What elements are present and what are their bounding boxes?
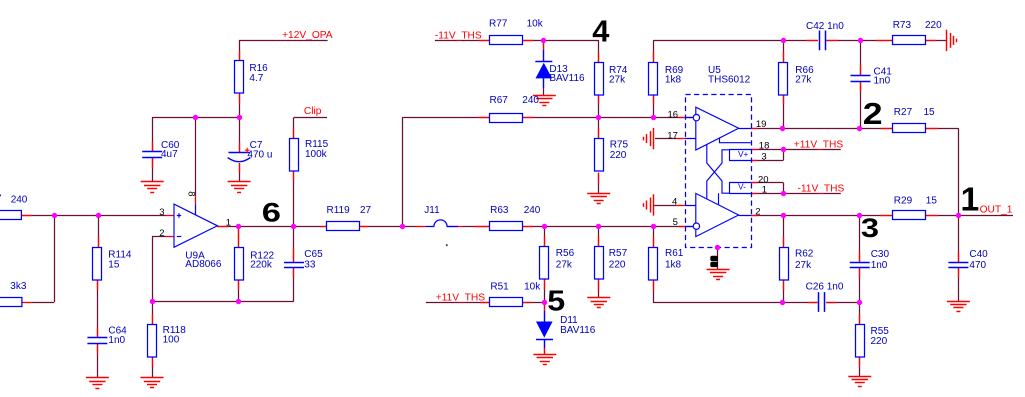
op-amp U9A power pin segment <box>195 204 197 214</box>
red stubs R55 <box>859 314 861 324</box>
svg-text:2: 2 <box>863 97 883 131</box>
svg-text:1k8: 1k8 <box>665 260 682 271</box>
ground under R57 <box>587 297 610 299</box>
svg-text:15: 15 <box>108 260 120 271</box>
annotation number 5 <box>547 285 565 317</box>
svg-text:27k: 27k <box>609 75 626 86</box>
diode D13 BAV116 <box>535 61 552 63</box>
resistor R51 <box>490 298 523 307</box>
wire R77 junction to R74 <box>544 40 599 42</box>
red stubs R74 <box>598 52 600 62</box>
wire R69 column <box>653 40 655 62</box>
resistor R74 <box>595 63 604 96</box>
svg-text:R119: R119 <box>327 205 351 216</box>
svg-text:3: 3 <box>861 214 879 244</box>
red stubs C30 <box>859 252 861 263</box>
red stubs C7 <box>239 143 241 153</box>
svg-text:1k8: 1k8 <box>665 75 682 86</box>
junction node M1 <box>715 245 720 250</box>
red stubs C60 <box>152 142 154 152</box>
wire pin20 to V- junction <box>751 182 783 184</box>
wire C64 to ground <box>97 343 99 378</box>
svg-text:220: 220 <box>610 150 627 161</box>
ferrite bead J11 <box>425 220 458 227</box>
svg-text:20: 20 <box>758 174 769 185</box>
svg-text:BAV116: BAV116 <box>560 325 596 336</box>
red stubs R62 <box>783 237 785 247</box>
red stubs R66 <box>783 52 785 62</box>
junction node E2 <box>542 224 547 229</box>
svg-text:C40: C40 <box>969 249 988 260</box>
ground rotated after R73 <box>946 30 948 51</box>
op-amp U9A plus mark <box>177 213 181 217</box>
capacitor C65 <box>284 262 304 264</box>
red stubs R51 <box>480 302 489 304</box>
svg-text:AD8066: AD8066 <box>185 259 222 270</box>
U5 pin5 blue lead <box>686 226 694 228</box>
svg-text:BAV116: BAV116 <box>549 73 585 84</box>
svg-text:R63: R63 <box>490 205 509 216</box>
svg-text:33: 33 <box>304 260 316 271</box>
red stub U9A output <box>217 226 228 228</box>
pin number thermal pad rotated U5 <box>710 256 718 261</box>
U5 pin16 blue lead <box>686 117 694 119</box>
svg-text:3: 3 <box>761 151 766 162</box>
wire D11 column <box>544 302 546 321</box>
svg-text:27k: 27k <box>556 260 573 271</box>
wire R55 column <box>859 302 861 325</box>
U5 bottom amp triangle <box>696 193 739 236</box>
junction node C2 <box>291 224 296 229</box>
op-amp U9A triangle <box>174 204 217 247</box>
red stub U5 pin17 <box>676 138 686 140</box>
junction node D2 <box>236 299 241 304</box>
svg-text:-11V_THS: -11V_THS <box>435 31 482 42</box>
wire main mid row y226 <box>294 226 416 228</box>
red stub U5 pin3 <box>751 160 757 162</box>
svg-text:100k: 100k <box>305 149 328 160</box>
annotation number 3 <box>861 214 879 244</box>
resistor R63 <box>490 222 523 231</box>
ground under C40 <box>947 301 970 303</box>
wire R115 column <box>293 118 295 140</box>
junction node A1 <box>52 213 57 218</box>
red stubs R69 <box>653 52 655 62</box>
svg-text:220: 220 <box>609 260 626 271</box>
annotation number 4 <box>592 14 609 49</box>
resistor R67 <box>490 114 523 123</box>
U5 output pin19 segment <box>739 128 752 130</box>
wire R62 column <box>783 215 785 247</box>
svg-text:Clip: Clip <box>304 106 322 117</box>
junction node J1 <box>781 147 786 152</box>
junction node E3 <box>596 224 601 229</box>
wire U9A output row <box>217 226 294 228</box>
svg-text:R75: R75 <box>610 140 629 151</box>
svg-text:220: 220 <box>871 336 888 347</box>
wire C41 column <box>860 40 862 75</box>
wire R61 column <box>653 226 655 248</box>
svg-text:3: 3 <box>159 207 164 218</box>
red stub U5 pin1 <box>751 193 757 195</box>
red stub U9A pin8 <box>195 196 197 204</box>
red stubs R57 <box>598 236 600 246</box>
ground under C60 <box>141 181 164 183</box>
ground under D11 <box>533 354 556 356</box>
junction node F1 <box>541 38 546 43</box>
wire pin17 stub wire <box>655 138 676 140</box>
resistor R62 <box>780 248 789 281</box>
wire pin18 +11V_THS <box>751 149 841 151</box>
wire R66 column <box>783 40 785 62</box>
red stubs R115 <box>293 129 295 139</box>
ground rotated at U5 pin17 <box>653 128 655 149</box>
svg-text:1: 1 <box>762 185 767 196</box>
resistor R66 <box>779 63 788 96</box>
wire feedback bottom rail <box>152 301 294 303</box>
junction node D1 <box>150 299 155 304</box>
svg-text:240: 240 <box>522 95 539 106</box>
red stub U9A pin2 <box>166 236 174 238</box>
wire C65 top lead <box>293 226 295 262</box>
wire top rail <box>653 40 818 42</box>
svg-text:6: 6 <box>262 197 281 227</box>
wire R57 column <box>598 226 600 247</box>
svg-text:V-: V- <box>738 182 746 192</box>
svg-text:220k: 220k <box>250 259 273 270</box>
wire +11V_THS to R51 row <box>426 302 489 304</box>
svg-text:10k: 10k <box>527 19 544 30</box>
svg-text:27: 27 <box>360 205 372 216</box>
red stubs R63 <box>474 226 489 228</box>
svg-text:1n0: 1n0 <box>874 75 891 86</box>
red stubs C26 <box>808 302 818 304</box>
resistor R55 <box>856 325 865 358</box>
wire pin1 -11V_THS <box>751 193 841 195</box>
resistor R122 <box>235 248 244 281</box>
svg-text:19: 19 <box>756 119 767 130</box>
svg-text:OUT_1: OUT_1 <box>980 204 1013 215</box>
svg-text:R57: R57 <box>609 248 628 259</box>
red stubs C42 <box>806 40 817 42</box>
red stubs R16 <box>239 51 241 61</box>
svg-text:R51: R51 <box>490 282 509 293</box>
red stub U5 pin2 <box>751 215 758 217</box>
wire R61 bottom corner to rail <box>653 280 655 302</box>
ground under D13 <box>533 95 556 97</box>
red stub U9A pin3 <box>166 215 174 217</box>
svg-text:10k: 10k <box>524 282 541 293</box>
svg-text:17: 17 <box>667 130 678 141</box>
wire U9A pin2 feedback down <box>152 236 166 238</box>
U5 internal power cross wiring <box>707 138 751 205</box>
wire R74 bottom <box>598 94 600 118</box>
svg-text:27k: 27k <box>795 260 812 271</box>
U5 top amp input bubble pin16 <box>693 114 699 120</box>
wire +12V_OPA net <box>239 40 328 42</box>
ground under U5 thermal pad <box>707 269 730 271</box>
svg-text:+11V_THS: +11V_THS <box>794 140 844 151</box>
wire C40 column <box>958 215 960 262</box>
svg-text:R27: R27 <box>894 107 913 118</box>
junction node I1 <box>780 126 785 131</box>
wire main input row y215 <box>21 215 166 217</box>
svg-text:R56: R56 <box>556 248 575 259</box>
annotation number 6 <box>262 197 281 227</box>
U5 bottom amp input bubble pin5 <box>693 223 699 229</box>
ground under C7 <box>228 181 251 183</box>
svg-text:C65: C65 <box>304 249 323 260</box>
svg-text:R61: R61 <box>665 248 684 259</box>
red stubs C41 <box>860 65 862 75</box>
svg-text:4: 4 <box>592 14 609 49</box>
ground under R118 <box>141 377 164 379</box>
svg-text:1n0: 1n0 <box>871 260 888 271</box>
red stubs R67 <box>478 117 489 119</box>
svg-text:4.7: 4.7 <box>249 73 263 84</box>
junction node H2 <box>858 38 863 43</box>
junction node H1 <box>781 38 786 43</box>
resistor R118 <box>148 325 157 358</box>
wire D13 column <box>543 40 545 61</box>
stray dot artifact near J11 <box>446 244 448 246</box>
resistor R29 <box>893 211 926 220</box>
svg-text:15: 15 <box>926 196 938 207</box>
svg-text:THS6012: THS6012 <box>708 75 751 86</box>
red stub U5 pin18 <box>751 149 757 151</box>
wire R67 row to pin16 <box>402 117 694 119</box>
svg-text:470 u: 470 u <box>247 149 272 160</box>
red stub 3k3 resistor <box>22 302 32 304</box>
wire U9A power pin 8 column <box>195 117 197 196</box>
red stubs R118 <box>152 314 154 324</box>
capacitor C41 <box>851 75 871 77</box>
wire vertical x402 to R67 row <box>402 118 404 226</box>
red stubs C40 <box>958 252 960 263</box>
wire Clip net <box>294 117 327 119</box>
red stubs R27 <box>881 128 893 130</box>
U5 pin17 blue lead <box>686 138 696 140</box>
U5 pin4 blue lead <box>686 205 696 207</box>
red stubs R75 <box>598 128 600 138</box>
wire R118 stubs <box>152 302 154 325</box>
resistor R75 <box>595 139 604 172</box>
svg-text:R73: R73 <box>893 20 912 31</box>
svg-text:C26 1n0: C26 1n0 <box>806 281 844 292</box>
resistor R56 <box>540 247 549 280</box>
svg-text:R29: R29 <box>894 196 913 207</box>
svg-text:2: 2 <box>159 228 164 239</box>
wire R51 to junction <box>522 302 544 304</box>
red stubs R61 <box>653 237 655 247</box>
svg-text:16: 16 <box>668 109 679 120</box>
resistor R57 <box>595 247 604 280</box>
svg-text:18: 18 <box>759 141 770 152</box>
red stub U5 pin19 <box>751 128 757 130</box>
svg-text:1n0: 1n0 <box>108 335 125 346</box>
junction node K3 <box>956 213 961 218</box>
junction node F2 <box>542 300 547 305</box>
wire branch to 3k3 resistor <box>54 215 56 302</box>
red stubs R77 <box>479 40 490 42</box>
svg-text:V+: V+ <box>738 149 749 159</box>
resistor R16 <box>235 61 244 94</box>
wire C7 column <box>239 117 241 152</box>
junction node E1 <box>400 224 405 229</box>
resistor R27 <box>893 124 926 133</box>
resistor partial 3k3 at left edge <box>0 298 22 307</box>
svg-text:C30: C30 <box>871 249 890 260</box>
svg-text:R62: R62 <box>795 248 814 259</box>
svg-text:1: 1 <box>961 182 980 219</box>
wire pin19 row to R27 corner <box>751 128 958 130</box>
resistor R77 <box>490 36 523 45</box>
svg-text:-11V_THS: -11V_THS <box>798 183 845 194</box>
U5 V+ pin lines 18 and 3 <box>729 149 751 151</box>
junction node B1 <box>193 115 198 120</box>
annotation number 1 <box>961 182 980 219</box>
red stubs J11 <box>416 226 426 228</box>
resistor R61 <box>649 248 658 281</box>
red stubs R73 <box>876 40 893 42</box>
capacitor C30 <box>850 262 870 264</box>
capacitor C40 <box>948 262 968 264</box>
resistor R69 <box>649 63 658 96</box>
U5 dashed body box <box>686 95 752 248</box>
wire R114 bottom to C64 <box>97 280 99 338</box>
svg-text:15: 15 <box>924 107 936 118</box>
junction node A2 <box>96 213 101 218</box>
svg-text:470: 470 <box>969 260 986 271</box>
resistor R73 <box>893 36 926 45</box>
ground under R75 <box>587 193 610 195</box>
capacitor C26 <box>818 292 820 312</box>
resistor R119 <box>327 222 360 231</box>
ground under R55 <box>848 376 871 378</box>
svg-text:100: 100 <box>163 335 180 346</box>
wire pin3 to V+ junction <box>751 160 783 162</box>
diode D11 BAV116 <box>536 322 553 338</box>
annotation number 2 <box>863 97 883 131</box>
svg-text:2: 2 <box>755 207 760 218</box>
wire C30 column <box>859 215 861 262</box>
svg-text:27k: 27k <box>795 75 812 86</box>
red stubs R29 <box>880 215 892 217</box>
red stub U5 pin16 <box>678 117 685 119</box>
svg-text:5: 5 <box>547 285 565 317</box>
resistor R114 <box>93 248 102 281</box>
red stubs R56 <box>544 236 546 246</box>
red stubs D11 <box>544 305 546 312</box>
svg-text:1: 1 <box>226 217 231 228</box>
junction node L1 <box>780 300 785 305</box>
red stubs R119 <box>320 226 326 228</box>
red stubs C65 <box>293 248 295 262</box>
junction node C1 <box>236 224 241 229</box>
svg-text:5: 5 <box>673 217 678 228</box>
junction node G1 <box>596 115 601 120</box>
svg-text:3k3: 3k3 <box>10 281 27 292</box>
junction node K1 <box>781 213 786 218</box>
junction node L2 <box>857 300 862 305</box>
capacitor C60 <box>142 151 162 153</box>
junction node E4 <box>651 224 656 229</box>
svg-text:+11V_THS: +11V_THS <box>436 293 486 304</box>
capacitor C7 electrolytic <box>229 152 250 154</box>
svg-text:8: 8 <box>186 191 197 196</box>
ground under C64 <box>86 377 109 379</box>
red stub U5 pin20 <box>751 182 757 184</box>
wire U5 thermal pad to ground <box>717 248 719 270</box>
svg-text:4: 4 <box>672 197 677 208</box>
capacitor C64 <box>87 337 107 339</box>
resistor R115 <box>290 139 299 172</box>
wire C60 column <box>152 117 154 152</box>
wire -11V_THS to R77 row <box>435 40 544 42</box>
svg-text:220: 220 <box>925 20 942 31</box>
wire R16 column <box>239 40 241 61</box>
svg-text:R77: R77 <box>489 19 508 30</box>
red stubs R122 <box>238 228 240 248</box>
op-amp U9A minus mark <box>177 236 181 238</box>
svg-text:J11: J11 <box>424 205 440 216</box>
wire pin4 stub wire <box>654 205 676 207</box>
svg-text:C42 1n0: C42 1n0 <box>806 21 844 32</box>
U5 output pin2 segment <box>739 215 752 217</box>
svg-text:4u7: 4u7 <box>161 149 178 160</box>
red stubs R114 <box>98 237 100 247</box>
red stub U5 pin4 <box>676 205 686 207</box>
junction node K2 <box>857 213 862 218</box>
capacitor C42 <box>819 31 821 51</box>
wire top-left rail <box>152 117 239 119</box>
wire R122 vertical <box>238 226 240 247</box>
red stub left 240 resistor <box>21 215 32 217</box>
svg-text:240: 240 <box>524 205 541 216</box>
resistor partial 240 at left edge <box>0 211 21 220</box>
junction node I2 <box>857 126 862 131</box>
svg-text:+12V_OPA: +12V_OPA <box>282 30 333 41</box>
wire R114 top branch <box>98 215 100 247</box>
wire pin2 output row OUT_1 <box>751 215 1013 217</box>
U5 top amp triangle <box>696 107 739 150</box>
red stubs D13 <box>543 43 545 51</box>
svg-text:R67: R67 <box>490 95 509 106</box>
wire R75 column <box>598 118 600 139</box>
junction node J2 <box>781 191 786 196</box>
U5 V- pin lines 20 and 1 <box>729 182 751 184</box>
ground rotated at U5 pin4 <box>653 194 655 215</box>
red stub U5 pin5 <box>678 226 685 228</box>
wire R56 column <box>544 226 546 247</box>
junction node G2 <box>651 115 656 120</box>
junction node B2 <box>237 115 242 120</box>
svg-text:240: 240 <box>11 195 28 206</box>
